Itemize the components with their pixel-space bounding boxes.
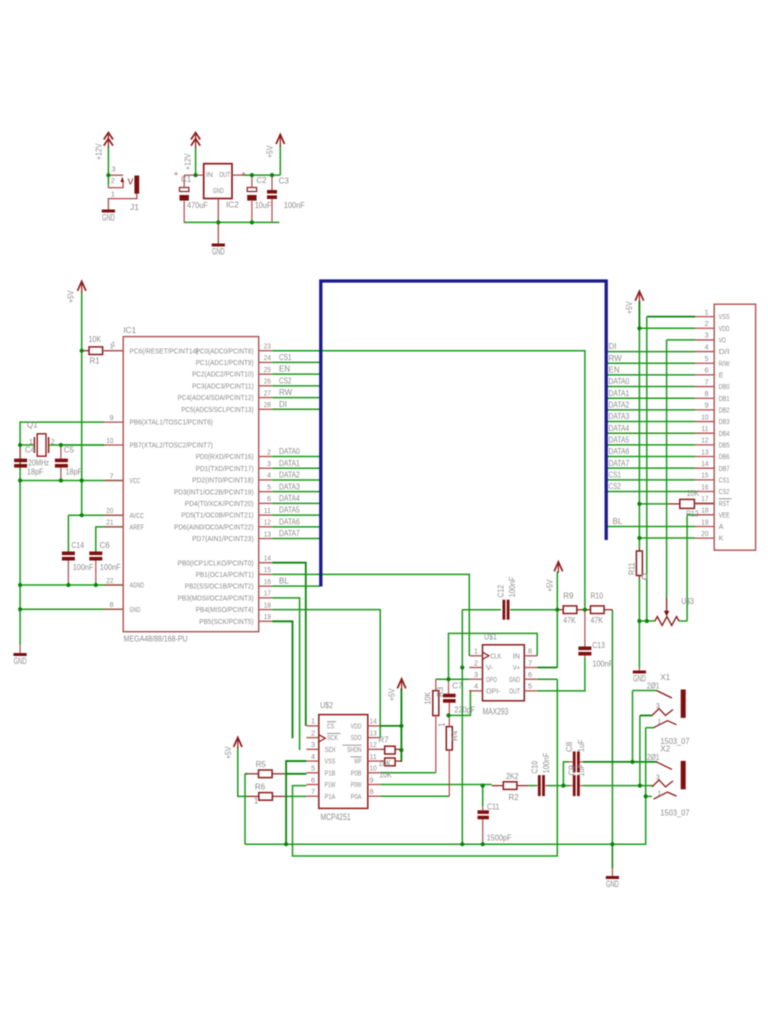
svg-text:2Ø1: 2Ø1 [647,682,660,691]
svg-text:DB5: DB5 [719,440,730,449]
svg-text:+5V: +5V [625,301,634,314]
svg-text:3: 3 [311,740,315,749]
svg-text:CS2: CS2 [609,482,622,491]
svg-text:P1A: P1A [325,792,336,801]
svg-text:1500pF: 1500pF [487,834,512,843]
svg-text:V+: V+ [513,663,521,672]
svg-text:6: 6 [528,670,532,679]
svg-text:PD6(AIN0/OC0A/PCINT22): PD6(AIN0/OC0A/PCINT22) [174,522,254,531]
svg-text:R/W: R/W [719,359,730,368]
svg-text:100nF: 100nF [100,563,121,572]
svg-text:4: 4 [267,471,271,480]
svg-text:R5: R5 [256,760,267,769]
svg-text:18pF: 18pF [27,468,44,477]
svg-text:DATA1: DATA1 [279,459,300,468]
svg-text:13: 13 [264,529,271,538]
svg-text:MEGA48/88/168-PU: MEGA48/88/168-PU [124,634,188,644]
svg-text:C2: C2 [256,176,267,185]
svg-text:VSS: VSS [719,312,730,321]
svg-text:OUT: OUT [509,687,520,696]
svg-text:2Ø1: 2Ø1 [647,753,660,762]
svg-text:10: 10 [370,764,377,773]
svg-text:14: 14 [370,717,377,726]
svg-text:DATA0: DATA0 [609,377,630,386]
svg-text:AVCC: AVCC [130,511,145,520]
svg-text:DATA5: DATA5 [609,435,630,444]
svg-text:7: 7 [109,471,113,480]
svg-text:6: 6 [267,494,271,503]
svg-text:R3: R3 [436,686,445,697]
svg-text:+12V: +12V [184,153,193,170]
svg-text:DATA6: DATA6 [609,447,630,456]
svg-text:R10: R10 [591,592,604,601]
svg-text:GND: GND [633,674,646,684]
svg-text:5: 5 [528,682,532,691]
svg-text:1uF: 1uF [577,739,586,752]
svg-text:OPO: OPO [486,675,497,684]
svg-text:16: 16 [701,482,708,491]
svg-text:2: 2 [267,447,271,456]
svg-text:+: + [174,171,178,178]
svg-text:27: 27 [264,388,271,397]
svg-text:8: 8 [704,389,708,398]
svg-text:13: 13 [701,447,708,456]
svg-text:11: 11 [264,506,271,515]
svg-text:PD3(INT1/OC2B/PCINT19): PD3(INT1/OC2B/PCINT19) [174,487,254,496]
svg-text:2: 2 [111,176,115,185]
svg-text:14: 14 [701,459,708,468]
svg-text:C11: C11 [487,803,500,812]
svg-text:1503_07: 1503_07 [660,808,690,817]
svg-text:OUT: OUT [219,170,230,179]
svg-text:PC2(ADC2/PCINT10): PC2(ADC2/PCINT10) [192,370,254,379]
svg-text:2: 2 [704,319,708,328]
svg-text:PB7(XTAL2/TOSC2/PCINT7): PB7(XTAL2/TOSC2/PCINT7) [130,441,213,450]
svg-text:OPI-: OPI- [486,687,501,696]
svg-text:P0A: P0A [351,792,362,801]
svg-text:RW: RW [609,354,623,363]
svg-text:U$3: U$3 [681,597,694,606]
svg-text:C1: C1 [181,175,192,184]
svg-text:2: 2 [51,439,55,446]
svg-text:DB3: DB3 [719,417,730,426]
svg-text:100nF: 100nF [284,201,305,210]
svg-text:220pF: 220pF [454,706,475,715]
svg-text:9: 9 [109,413,113,422]
svg-text:PB5(SCK/PCINT5): PB5(SCK/PCINT5) [199,617,253,626]
svg-text:R9: R9 [563,592,574,601]
svg-text:K: K [719,534,724,543]
svg-text:PD5(T1/OC0B/PCINT21): PD5(T1/OC0B/PCINT21) [181,511,253,520]
svg-text:WP: WP [354,757,361,766]
svg-text:DATA4: DATA4 [279,494,300,503]
svg-text:9: 9 [370,775,374,784]
svg-text:R12: R12 [686,510,699,519]
svg-text:GND: GND [212,247,225,257]
svg-text:C5: C5 [64,446,75,455]
svg-text:CS1: CS1 [719,475,730,484]
svg-text:17: 17 [264,589,271,598]
svg-text:4: 4 [474,682,478,691]
svg-text:1: 1 [111,190,115,199]
svg-text:15: 15 [701,471,708,480]
svg-text:DB1: DB1 [719,394,730,403]
svg-text:SDO: SDO [351,733,362,742]
svg-text:V: V [128,177,134,187]
svg-text:X2: X2 [660,744,670,753]
svg-text:Q1: Q1 [27,421,38,430]
svg-text:DB0: DB0 [719,382,730,391]
svg-text:11: 11 [370,752,377,761]
svg-text:DATA7: DATA7 [279,529,300,538]
svg-text:C4: C4 [25,446,36,455]
svg-text:IC1: IC1 [123,325,136,335]
svg-text:18pF: 18pF [66,468,83,477]
svg-text:VO: VO [719,336,726,345]
svg-text:10K: 10K [379,771,392,780]
svg-text:8: 8 [109,600,113,609]
svg-text:1: 1 [704,307,708,316]
svg-text:PC3(ADC3/PCINT11): PC3(ADC3/PCINT11) [192,381,254,390]
svg-text:5: 5 [267,482,271,491]
svg-text:IN: IN [513,651,520,660]
svg-text:SHDN: SHDN [347,745,362,754]
svg-text:4: 4 [704,342,708,351]
svg-text:C6: C6 [100,541,111,550]
svg-text:2: 2 [474,658,478,667]
svg-text:8: 8 [370,787,374,796]
svg-text:PC5(ADC5/SCLPCINT13): PC5(ADC5/SCLPCINT13) [181,405,253,414]
svg-text:DI: DI [279,400,287,409]
svg-text:DATA7: DATA7 [609,459,630,468]
svg-text:PC0(ADC0/PCINT8): PC0(ADC0/PCINT8) [196,346,254,355]
svg-text:R7: R7 [378,736,389,745]
svg-text:+: + [241,171,245,178]
svg-text:10K: 10K [378,759,391,768]
svg-text:CS2: CS2 [279,376,292,385]
svg-text:C3: C3 [279,177,290,186]
svg-text:PD4(T0/XCK/PCINT20): PD4(T0/XCK/PCINT20) [185,499,254,508]
svg-text:14: 14 [264,554,271,563]
svg-text:PC4(ADC4/SDA/PCINT12): PC4(ADC4/SDA/PCINT12) [178,393,254,402]
svg-text:1: 1 [657,789,661,798]
svg-text:+5V: +5V [67,290,76,303]
svg-text:1: 1 [254,797,259,806]
svg-text:CS2: CS2 [719,487,730,496]
svg-text:GND: GND [102,213,115,223]
svg-text:PB0(ICP1/CLKO/PCINT0): PB0(ICP1/CLKO/PCINT0) [178,558,254,567]
svg-text:4: 4 [311,752,315,761]
svg-text:6: 6 [311,775,315,784]
svg-text:C8: C8 [565,741,574,752]
svg-text:R2: R2 [509,793,520,802]
svg-text:GND: GND [130,605,141,614]
svg-text:18: 18 [701,506,708,515]
svg-text:DATA1: DATA1 [609,389,630,398]
svg-text:100nF: 100nF [592,660,613,669]
svg-text:PB4(MISO/PCINT4): PB4(MISO/PCINT4) [196,605,254,614]
svg-text:7: 7 [528,658,532,667]
svg-text:1uF: 1uF [577,764,586,777]
svg-text:6: 6 [704,366,708,375]
svg-text:3: 3 [656,772,660,781]
svg-text:10: 10 [106,436,113,445]
svg-text:VEE: VEE [719,510,730,519]
svg-text:A: A [719,522,724,531]
svg-text:BL: BL [613,517,623,526]
svg-text:16: 16 [264,577,271,586]
svg-text:+5V: +5V [546,579,555,592]
svg-text:GND: GND [14,656,27,666]
svg-text:1: 1 [474,647,478,656]
svg-text:CLK: CLK [491,651,502,660]
svg-text:23: 23 [264,342,271,351]
svg-text:RW: RW [279,388,293,397]
svg-text:C14: C14 [72,541,85,550]
svg-text:E: E [719,371,724,380]
svg-text:C10: C10 [530,761,539,774]
svg-text:1: 1 [111,340,115,349]
svg-text:C12: C12 [497,585,506,598]
svg-text:DI: DI [609,342,617,351]
svg-text:10K: 10K [687,489,700,498]
svg-text:PC6(/RESET/PCINT14): PC6(/RESET/PCINT14) [130,346,199,355]
svg-text:100nF: 100nF [508,577,517,598]
svg-text:MAX293: MAX293 [483,707,509,717]
svg-text:25: 25 [264,365,271,374]
svg-text:DATA4: DATA4 [609,424,630,433]
svg-text:1: 1 [438,722,447,727]
svg-text:P0W: P0W [351,780,363,789]
svg-text:47K: 47K [563,616,576,625]
svg-text:DATA3: DATA3 [609,412,630,421]
svg-text:VCC: VCC [130,476,141,485]
svg-text:20MHz: 20MHz [28,459,49,468]
svg-text:R6: R6 [255,783,266,792]
svg-text:CS1: CS1 [279,353,292,362]
svg-text:PB6(XTAL1/TOSC1/PCINT6): PB6(XTAL1/TOSC1/PCINT6) [130,418,213,427]
svg-text:24: 24 [264,353,271,362]
svg-text:PC1(ADC1/PCINT9): PC1(ADC1/PCINT9) [196,358,254,367]
svg-text:GND: GND [213,186,224,195]
svg-text:DB4: DB4 [719,429,730,438]
svg-text:BL: BL [279,577,289,586]
svg-text:2K2: 2K2 [506,772,519,781]
svg-text:IN: IN [206,170,213,179]
svg-text:3: 3 [474,670,478,679]
svg-text:100nF: 100nF [542,753,551,774]
svg-text:3: 3 [267,459,271,468]
svg-text:28: 28 [264,400,271,409]
svg-text:15: 15 [264,565,271,574]
svg-text:VSS: VSS [325,757,336,766]
svg-text:47K: 47K [591,616,604,625]
svg-text:+5V: +5V [388,688,397,701]
svg-text:IC2: IC2 [226,200,239,210]
svg-text:19: 19 [264,612,271,621]
svg-text:+5V: +5V [266,145,275,158]
svg-text:CS: CS [327,722,334,731]
svg-text:U$2: U$2 [320,700,333,710]
svg-text:1: 1 [311,717,315,726]
svg-text:EN: EN [279,365,290,374]
svg-text:PD7(AIN1/PCINT23): PD7(AIN1/PCINT23) [192,534,254,543]
svg-text:R4: R4 [451,730,460,741]
svg-text:GND: GND [606,879,619,889]
svg-text:12: 12 [370,740,377,749]
svg-text:V-: V- [486,663,494,672]
svg-text:P1W: P1W [325,780,337,789]
svg-text:DATA2: DATA2 [609,400,630,409]
svg-text:D/I: D/I [719,347,730,356]
svg-text:10K: 10K [424,691,433,704]
svg-text:DATA5: DATA5 [279,506,300,515]
svg-text:PD2(INT0/PCINT18): PD2(INT0/PCINT18) [192,476,254,485]
svg-text:21: 21 [106,518,113,527]
svg-text:13: 13 [370,728,377,737]
svg-text:18: 18 [264,600,271,609]
svg-text:R11: R11 [628,562,637,575]
svg-text:3: 3 [704,331,708,340]
svg-text:P1B: P1B [325,768,336,777]
svg-text:C7: C7 [452,682,463,691]
svg-text:SDI: SDI [325,745,336,754]
svg-text:7: 7 [311,787,315,796]
svg-text:DATA6: DATA6 [279,517,300,526]
svg-text:GND: GND [509,675,520,684]
svg-text:DATA2: DATA2 [279,471,300,480]
svg-text:10K: 10K [89,335,102,344]
svg-text:DB6: DB6 [719,452,730,461]
svg-text:SCK: SCK [327,733,338,742]
svg-text:5: 5 [311,764,315,773]
svg-text:EN: EN [609,366,620,375]
svg-text:R1: R1 [90,357,101,366]
svg-text:17: 17 [701,494,708,503]
svg-text:20: 20 [701,529,708,538]
svg-text:VDD: VDD [719,324,730,333]
svg-text:20: 20 [106,506,113,515]
svg-text:DB2: DB2 [719,405,730,414]
svg-text:12: 12 [264,518,271,527]
svg-text:11: 11 [701,424,708,433]
svg-text:8: 8 [528,647,532,656]
svg-text:7: 7 [704,377,708,386]
svg-text:C13: C13 [592,641,605,650]
svg-text:10: 10 [701,412,708,421]
svg-text:10uF: 10uF [255,201,272,210]
svg-text:DATA3: DATA3 [279,482,300,491]
svg-text:470uF: 470uF [187,201,208,210]
svg-text:X1: X1 [660,673,670,682]
svg-text:5: 5 [704,354,708,363]
svg-text:RST: RST [719,499,730,508]
svg-text:26: 26 [264,377,271,386]
svg-text:DB7: DB7 [719,464,730,473]
svg-text:PB1(OC1A/PCINT1): PB1(OC1A/PCINT1) [196,570,254,579]
svg-text:J1: J1 [130,202,139,212]
svg-text:3: 3 [112,165,116,174]
svg-text:19: 19 [701,517,708,526]
svg-text:VDD: VDD [351,722,362,731]
svg-text:PB2(SS/OC1B/PCINT2): PB2(SS/OC1B/PCINT2) [185,582,254,591]
svg-text:P0B: P0B [351,768,362,777]
svg-text:PD0(RXD/PCINT16): PD0(RXD/PCINT16) [196,452,254,461]
svg-text:DATA0: DATA0 [279,447,300,456]
svg-text:PD1(TXD/PCINT17): PD1(TXD/PCINT17) [196,464,254,473]
svg-text:CS1: CS1 [609,470,622,479]
svg-text:C9: C9 [568,765,577,776]
svg-text:2: 2 [311,728,315,737]
svg-text:12: 12 [701,436,708,445]
svg-text:AREF: AREF [130,523,145,532]
svg-text:100nF: 100nF [73,563,94,572]
svg-text:AGND: AGND [130,581,145,590]
svg-text:22: 22 [106,576,113,585]
svg-text:MCP4251: MCP4251 [321,812,351,822]
svg-text:PB3(MOSI/OC2A/PCINT3): PB3(MOSI/OC2A/PCINT3) [178,593,254,602]
svg-text:+12V: +12V [95,143,104,160]
svg-text:+5V: +5V [224,746,233,759]
svg-text:U$1: U$1 [484,632,497,642]
svg-text:3: 3 [656,701,660,710]
svg-text:1: 1 [657,717,661,726]
svg-text:9: 9 [704,401,708,410]
